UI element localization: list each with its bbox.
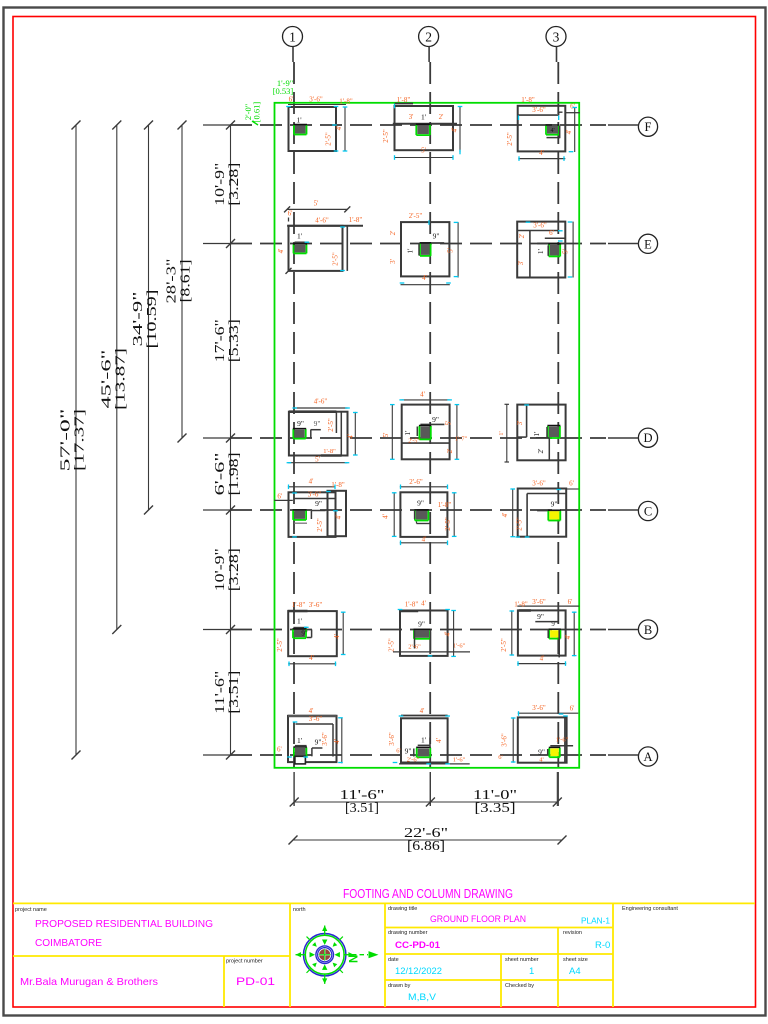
grid line 2 [428, 47, 430, 63]
svg-text:6': 6' [288, 210, 293, 218]
svg-text:2'-5": 2'-5" [325, 132, 333, 146]
svg-text:1'-8": 1'-8" [292, 601, 306, 609]
dim chain row spacing [230, 125, 232, 755]
svg-text:F: F [645, 120, 652, 134]
svg-text:45'-6": 45'-6" [98, 350, 113, 409]
svg-text:1'-6": 1'-6" [453, 757, 466, 764]
svg-text:5': 5' [562, 249, 570, 254]
svg-text:5': 5' [447, 248, 455, 253]
svg-text:3': 3' [389, 259, 397, 264]
svg-text:4': 4' [501, 513, 509, 518]
svg-text:[3.35]: [3.35] [475, 801, 516, 816]
svg-text:2: 2 [425, 30, 432, 45]
title block grid [13, 902, 755, 904]
grid bubble 1 [283, 27, 303, 47]
footing A3 [498, 704, 578, 763]
svg-text:2'-5": 2'-5" [276, 638, 284, 652]
grid line B [608, 629, 639, 631]
svg-text:[17.37]: [17.37] [72, 409, 87, 471]
svg-text:10'-9": 10'-9" [212, 163, 227, 206]
grid bubble B [638, 620, 657, 639]
svg-text:1'-8": 1'-8" [397, 96, 411, 104]
svg-text:5': 5' [314, 200, 319, 208]
svg-text:2'-5": 2'-5" [506, 132, 514, 146]
svg-text:4': 4' [564, 635, 572, 640]
svg-text:A: A [643, 750, 652, 764]
grid line 3 [556, 47, 558, 63]
svg-text:revision: revision [563, 930, 582, 936]
svg-text:9": 9" [315, 499, 322, 508]
svg-text:9": 9" [301, 630, 308, 638]
svg-text:Checked by: Checked by [505, 983, 534, 989]
svg-text:4': 4' [550, 128, 554, 134]
footing E3 [517, 221, 573, 277]
svg-text:3'-6": 3'-6" [308, 491, 322, 499]
svg-text:1': 1' [536, 248, 545, 254]
svg-text:9": 9" [551, 500, 558, 509]
footing A2 [388, 707, 470, 764]
svg-text:3'-6": 3'-6" [532, 704, 546, 712]
svg-text:2'-5": 2'-5" [316, 518, 324, 532]
svg-text:1'-7": 1'-7" [455, 436, 468, 443]
svg-text:2'-5": 2'-5" [516, 517, 524, 531]
svg-text:3'-6": 3'-6" [388, 732, 396, 746]
svg-text:1'-8": 1'-8" [438, 501, 452, 509]
svg-text:6': 6' [498, 754, 502, 761]
svg-text:4': 4' [539, 756, 543, 763]
grid bubble 2 [419, 27, 439, 47]
svg-text:4': 4' [382, 514, 390, 519]
svg-text:3'-6": 3'-6" [321, 732, 329, 746]
dim 57'-0" overall [75, 125, 77, 755]
svg-text:4': 4' [420, 707, 425, 715]
svg-text:4': 4' [451, 128, 459, 133]
svg-text:project name: project name [15, 907, 47, 913]
svg-text:3'-6": 3'-6" [309, 96, 323, 104]
svg-text:[13.87]: [13.87] [112, 348, 127, 410]
svg-text:3': 3' [517, 261, 525, 266]
svg-text:6': 6' [549, 229, 554, 237]
footing B2 [388, 600, 471, 657]
grid line 1 [292, 47, 294, 63]
svg-text:4': 4' [421, 600, 426, 608]
svg-text:6'-6": 6'-6" [212, 453, 227, 496]
svg-text:[10.59]: [10.59] [144, 290, 159, 349]
dim 45'-6" [116, 125, 118, 630]
svg-text:3'-6": 3'-6" [501, 733, 509, 747]
svg-text:Mr.Bala Murugan & Brothers: Mr.Bala Murugan & Brothers [20, 976, 158, 988]
svg-text:COIMBATORE: COIMBATORE [35, 937, 102, 949]
green plan boundary [275, 103, 580, 768]
svg-text:4': 4' [565, 130, 573, 135]
svg-text:2': 2' [518, 234, 526, 239]
footing B3 [500, 598, 579, 666]
svg-text:4': 4' [309, 654, 314, 662]
svg-text:9": 9" [432, 415, 439, 424]
footing D2 [382, 391, 468, 460]
svg-text:Engineering consultant: Engineering consultant [622, 906, 678, 912]
svg-text:2'-6": 2'-6" [409, 478, 423, 486]
svg-text:4': 4' [539, 149, 544, 157]
svg-text:4': 4' [335, 515, 343, 520]
grid line D [608, 437, 639, 439]
svg-text:10'-9": 10'-9" [212, 548, 227, 591]
svg-text:1': 1' [421, 736, 427, 745]
svg-text:3'-6": 3'-6" [533, 221, 547, 229]
svg-text:1'-6": 1'-6" [453, 643, 466, 650]
grid bubble C [638, 501, 657, 520]
svg-text:6': 6' [569, 480, 574, 488]
svg-text:2'-5": 2'-5" [327, 418, 335, 432]
grid bubble E [638, 234, 657, 253]
svg-text:4': 4' [444, 632, 452, 637]
svg-text:D: D [643, 431, 652, 445]
svg-text:4': 4' [422, 274, 427, 282]
svg-text:1': 1' [406, 248, 415, 254]
svg-text:[5.33]: [5.33] [226, 319, 241, 362]
grid line A [608, 754, 639, 756]
svg-text:4': 4' [540, 654, 545, 662]
svg-text:drawing number: drawing number [388, 930, 428, 936]
svg-text:6': 6' [570, 705, 575, 713]
svg-text:[0.53]: [0.53] [273, 86, 294, 96]
svg-text:4': 4' [277, 249, 285, 254]
svg-text:sheet number: sheet number [505, 957, 539, 963]
svg-text:4': 4' [435, 738, 443, 743]
svg-text:6': 6' [568, 598, 573, 606]
svg-text:17'-6": 17'-6" [212, 319, 227, 362]
svg-text:9": 9" [537, 612, 544, 621]
svg-text:M,B,V: M,B,V [408, 992, 437, 1003]
svg-text:2'-5": 2'-5" [332, 252, 340, 266]
svg-text:1'-8": 1'-8" [339, 98, 353, 106]
svg-text:PLAN-1: PLAN-1 [581, 916, 610, 926]
svg-text:drawing title: drawing title [388, 906, 417, 912]
svg-text:9": 9" [418, 620, 425, 629]
svg-text:1'-8": 1'-8" [349, 216, 363, 224]
svg-text:1'-8": 1'-8" [521, 96, 535, 104]
svg-text:4': 4' [347, 434, 355, 439]
svg-text:4': 4' [333, 739, 341, 744]
footing D3 [498, 404, 566, 462]
footing B1 [276, 601, 346, 666]
svg-text:R-0: R-0 [595, 940, 610, 951]
grid line E [608, 243, 639, 245]
svg-text:6': 6' [277, 745, 282, 753]
svg-text:9": 9" [314, 419, 321, 428]
svg-text:4': 4' [309, 478, 314, 486]
grid line F [608, 124, 639, 126]
svg-text:GROUND FLOOR PLAN: GROUND FLOOR PLAN [430, 914, 526, 925]
svg-text:north: north [293, 907, 306, 913]
svg-text:1': 1' [297, 736, 303, 745]
grid bubble 3 [546, 27, 566, 47]
dim 34'-9" [148, 125, 150, 510]
svg-text:sheet size: sheet size [563, 957, 588, 963]
svg-text:9": 9" [433, 232, 440, 241]
svg-text:project number: project number [226, 959, 263, 965]
svg-text:1: 1 [289, 30, 296, 45]
footing C2 [382, 478, 457, 545]
svg-text:PROPOSED RESIDENTIAL BUILDIN: PROPOSED RESIDENTIAL BUILDING [35, 918, 213, 930]
svg-text:57'-0": 57'-0" [58, 409, 73, 472]
svg-text:2'-6": 2'-6" [407, 757, 420, 764]
grid bubble A [638, 747, 657, 766]
svg-text:3'-6": 3'-6" [309, 715, 323, 723]
svg-text:2'-5": 2'-5" [409, 212, 423, 220]
svg-text:2'-5": 2'-5" [500, 638, 508, 652]
footing F3 [506, 96, 580, 161]
footing E2 [389, 212, 458, 285]
svg-text:2'-5": 2'-5" [408, 439, 420, 445]
svg-text:N: N [349, 955, 361, 963]
bottom dim 22'-6" [293, 839, 562, 841]
svg-text:A4: A4 [569, 966, 581, 977]
grid bubble D [638, 428, 657, 447]
svg-text:9": 9" [417, 499, 424, 508]
svg-text:6': 6' [396, 748, 400, 755]
svg-text:1'-8": 1'-8" [405, 601, 419, 609]
svg-text:34'-9": 34'-9" [130, 292, 145, 347]
footing C1 [274, 478, 346, 537]
svg-text:2': 2' [389, 231, 397, 236]
footing F2 [382, 96, 462, 160]
svg-text:1': 1' [532, 431, 541, 437]
svg-text:2': 2' [446, 449, 454, 454]
svg-text:9": 9" [405, 747, 412, 756]
svg-text:1'-8": 1'-8" [323, 448, 336, 455]
svg-text:date: date [388, 957, 399, 963]
svg-text:[3.51]: [3.51] [226, 671, 241, 714]
svg-text:PD-01: PD-01 [236, 976, 275, 988]
svg-text:C: C [644, 505, 652, 519]
svg-text:[8.61]: [8.61] [178, 260, 193, 303]
svg-text:[3.28]: [3.28] [226, 548, 241, 591]
svg-text:4'-6": 4'-6" [315, 217, 329, 225]
footing C3 [501, 480, 579, 538]
grid bubble F [638, 117, 657, 136]
svg-text:E: E [644, 237, 652, 251]
svg-text:1'-8": 1'-8" [514, 601, 528, 609]
svg-text:4': 4' [420, 391, 425, 399]
svg-text:12/12/2022: 12/12/2022 [395, 966, 442, 977]
footing D1 [287, 398, 358, 464]
svg-text:2'-5": 2'-5" [388, 638, 396, 652]
svg-text:2': 2' [439, 113, 444, 121]
svg-text:[0.61]: [0.61] [252, 102, 262, 123]
svg-text:4': 4' [335, 126, 343, 131]
svg-text:1': 1' [421, 113, 427, 122]
svg-text:1': 1' [296, 116, 302, 125]
svg-text:[1.98]: [1.98] [226, 453, 241, 496]
svg-text:9": 9" [551, 620, 558, 628]
svg-text:[3.51]: [3.51] [345, 801, 379, 816]
svg-text:2'-5": 2'-5" [382, 129, 390, 143]
svg-text:3: 3 [553, 30, 560, 45]
svg-text:1: 1 [529, 966, 534, 977]
svg-text:3'-6": 3'-6" [532, 106, 546, 114]
dim 28'-3" [181, 125, 183, 438]
svg-text:3'-6": 3'-6" [532, 480, 546, 488]
svg-text:11'-6": 11'-6" [212, 671, 227, 714]
footing A1 [277, 707, 343, 764]
svg-text:5': 5' [421, 147, 426, 155]
svg-text:28'-3": 28'-3" [164, 259, 179, 304]
svg-text:3'-6": 3'-6" [309, 601, 323, 609]
svg-text:5': 5' [382, 433, 390, 438]
svg-text:FOOTING AND COLUMN DRAWING: FOOTING AND COLUMN DRAWING [343, 886, 513, 901]
footing E1 [277, 200, 363, 274]
svg-text:drawn by: drawn by [388, 983, 411, 989]
svg-text:3': 3' [409, 113, 414, 121]
svg-text:4'-6": 4'-6" [314, 398, 328, 406]
svg-text:5': 5' [445, 421, 453, 426]
svg-text:9": 9" [297, 419, 304, 428]
svg-text:1': 1' [498, 431, 505, 435]
svg-text:1'-8": 1'-8" [331, 481, 345, 489]
svg-text:4': 4' [333, 634, 341, 639]
svg-text:1': 1' [403, 430, 412, 436]
footing F1 [286, 96, 353, 152]
svg-text:1'-6": 1'-6" [556, 737, 569, 744]
svg-text:[6.86]: [6.86] [407, 839, 445, 854]
svg-text:6': 6' [277, 493, 282, 501]
svg-text:4': 4' [309, 707, 314, 715]
svg-text:1': 1' [297, 617, 303, 626]
svg-text:6': 6' [289, 96, 294, 104]
svg-text:2'-6": 2'-6" [408, 644, 421, 651]
svg-text:2': 2' [536, 448, 545, 454]
svg-text:1': 1' [297, 232, 303, 241]
grid line C [608, 509, 639, 511]
svg-text:3': 3' [516, 421, 524, 426]
svg-text:2'-5": 2'-5" [444, 517, 452, 531]
north compass [296, 926, 379, 984]
svg-text:B: B [644, 623, 652, 637]
svg-text:CC-PD-01: CC-PD-01 [395, 940, 441, 951]
svg-text:[3.28]: [3.28] [226, 163, 241, 206]
svg-text:3'-6": 3'-6" [532, 598, 546, 606]
bottom dim 11'-6" / 11'-0" [293, 772, 295, 806]
